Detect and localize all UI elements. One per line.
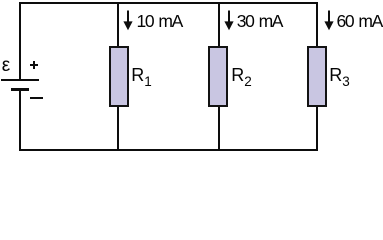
branch 2 wire lower: [218, 107, 220, 150]
branch 3 / right wire upper: [316, 2, 318, 47]
branch 1 wire lower: [117, 107, 119, 150]
branch 1 wire upper: [117, 2, 119, 47]
label 30 mA: [237, 13, 282, 31]
branch 3 / right wire lower: [316, 107, 318, 150]
branch 2 wire upper: [218, 2, 220, 47]
wire bottom (node B: return to battery -): [19, 149, 318, 151]
label R3: [329, 66, 350, 91]
current arrow I3 (down): [323, 10, 335, 31]
battery EMF source: long positive plate: [1, 79, 39, 81]
battery plus sign: [33, 61, 35, 69]
resistor R1: [109, 46, 129, 107]
wire left upper (battery + lead): [19, 2, 21, 79]
battery minus sign: [30, 97, 43, 99]
resistor R3: [307, 46, 327, 107]
label 10 mA: [137, 13, 182, 31]
wire left lower (battery - lead): [19, 91, 21, 150]
wire top (node A: battery + to branches): [19, 2, 318, 4]
current arrow I1 (down): [122, 10, 134, 31]
battery EMF source: short negative plate: [11, 88, 29, 91]
label 60 mA: [337, 13, 382, 31]
label R1: [131, 66, 152, 91]
current arrow I2 (down): [223, 10, 235, 31]
resistor R2: [208, 46, 228, 107]
label R2: [231, 66, 252, 91]
label epsilon (EMF): [2, 57, 10, 75]
